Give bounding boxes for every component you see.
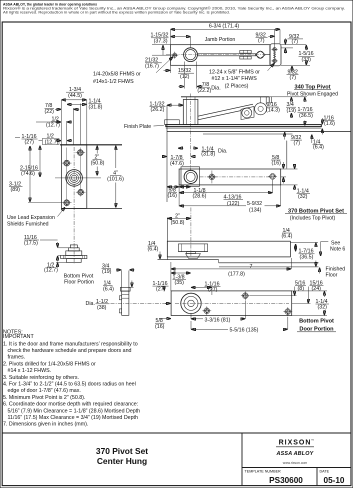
- svg-text:Shields Furnished: Shields Furnished: [7, 221, 49, 227]
- dim 2-15/16 (74.6): [20, 146, 40, 177]
- svg-text:frames.: frames.: [8, 355, 26, 361]
- dim 5-5/16 (135): [191, 317, 288, 334]
- svg-text:(36.5): (36.5): [300, 255, 314, 261]
- floor portion profile: [61, 245, 87, 263]
- svg-text:(12.7): (12.7): [46, 123, 60, 129]
- svg-text:(1.6): (1.6): [324, 121, 335, 127]
- dim 5-9/32 (134): [179, 185, 281, 214]
- plate screw right: [268, 174, 277, 180]
- svg-text:(6.4): (6.4): [148, 247, 159, 253]
- jamb pivot bearing circle: [184, 48, 198, 62]
- svg-text:(27): (27): [208, 287, 218, 293]
- screw C: [283, 307, 292, 316]
- svg-text:Bottom Pivot: Bottom Pivot: [64, 273, 94, 279]
- dim 7/8 (22): [45, 103, 80, 115]
- svg-text:(12): (12): [180, 74, 190, 80]
- dim 1-15/32 (37.3): [151, 33, 191, 48]
- dim 1-3/8 (35): [171, 273, 191, 286]
- spindle tabs: [119, 296, 121, 300]
- svg-text:TM: TM: [311, 440, 314, 442]
- end mounting plate: [270, 44, 281, 66]
- dim 4 inch (101.6): [107, 146, 124, 207]
- spindle bushing: [186, 254, 201, 259]
- svg-text:(7): (7): [292, 39, 299, 45]
- svg-text:3. Suitable reinforcing by oth: 3. Suitable reinforcing by others.: [3, 375, 79, 381]
- mortised case: [178, 244, 207, 254]
- bottom reference line: [61, 207, 122, 209]
- plate: [171, 291, 292, 316]
- spindle bearing: [184, 170, 197, 183]
- svg-text:Dia.: Dia.: [86, 301, 95, 307]
- finish plate left cap: [165, 120, 180, 125]
- dim 9/32 (7) door step: [285, 132, 302, 168]
- dim 3/4 (19): [102, 263, 135, 275]
- svg-text:2. Pivots drilled for 1/4-20x5: 2. Pivots drilled for 1/4-20x5/8 FHMS or: [3, 361, 96, 367]
- plate bearing: [66, 170, 83, 187]
- svg-text:(28.6): (28.6): [193, 193, 207, 199]
- roller 2: [255, 103, 267, 115]
- svg-text:(101.6): (101.6): [107, 177, 124, 183]
- svg-text:Finished: Finished: [326, 266, 346, 272]
- dim 5/8 (16) right upper: [271, 155, 286, 184]
- screw A: [202, 306, 211, 315]
- svg-text:(50.8): (50.8): [91, 161, 105, 167]
- pivot housing: [183, 100, 198, 125]
- bearing circle: [181, 293, 201, 313]
- svg-text:Dia.: Dia.: [218, 149, 227, 155]
- svg-text:(177.8): (177.8): [228, 272, 245, 278]
- dim 15/32 (12): [164, 65, 195, 80]
- svg-text:(26.2): (26.2): [151, 107, 165, 113]
- svg-text:ASSA ABLOY: ASSA ABLOY: [276, 451, 314, 457]
- dim 1-1/16 (27) left: [153, 281, 169, 293]
- dim 1/4 (6.4): [103, 281, 134, 293]
- rod center line: [166, 54, 269, 56]
- dim 3-1/2 (89): [9, 146, 30, 201]
- dim 11/16 (17.5): [24, 235, 68, 262]
- svg-text:(2 Places): (2 Places): [225, 83, 249, 89]
- door heel edge lower: [166, 218, 168, 260]
- arm rod: [197, 53, 256, 55]
- dim 1-3/4 (44.5): [62, 87, 86, 100]
- svg-text:5-5/16 (135): 5-5/16 (135): [230, 328, 259, 334]
- svg-text:All rights reserved. Reproduct: All rights reserved. Reproduction in who…: [3, 10, 230, 14]
- spindle body: [122, 291, 129, 315]
- dim 2 inch (50.8): [91, 146, 105, 175]
- svg-text:(89): (89): [11, 187, 21, 193]
- jamb portion case rect: [171, 45, 270, 66]
- dim 9/32 (7) top-left: [256, 29, 275, 64]
- top of door reference line: [60, 144, 122, 146]
- svg-text:(19): (19): [287, 108, 297, 114]
- svg-text:(12.7): (12.7): [44, 268, 58, 274]
- dim 1-1/32 (26.2): [150, 101, 183, 113]
- svg-text:370 Pivot Set: 370 Pivot Set: [96, 446, 148, 456]
- dim 5/8 (16) left lower + 1-1/8 (28.6): [167, 185, 207, 206]
- floor plate: [179, 169, 281, 185]
- center line: [175, 302, 289, 304]
- svg-text:1. It is the door and frame ma: 1. It is the door and frame manufacturer…: [3, 341, 138, 347]
- svg-text:(22): (22): [45, 109, 55, 115]
- svg-text:(14.3): (14.3): [266, 108, 280, 114]
- adjuster thread between screws: [273, 52, 276, 58]
- svg-text:(32): (32): [298, 194, 308, 200]
- svg-text:#12 x 1-1/4” FHWS: #12 x 1-1/4” FHWS: [212, 76, 258, 82]
- svg-text:TEMPLATE NUMBER: TEMPLATE NUMBER: [245, 470, 282, 474]
- dim 1-7/16 (36.5): [298, 98, 314, 126]
- bearing center line horizontal: [55, 177, 101, 179]
- svg-text:IMPORTANT: IMPORTANT: [3, 334, 34, 340]
- svg-text:(Includes Top Pivot): (Includes Top Pivot): [290, 215, 336, 221]
- spindle top cap: [121, 287, 131, 291]
- svg-text:5-9/32: 5-9/32: [247, 201, 262, 207]
- svg-text:(35): (35): [175, 280, 185, 286]
- pivot axis center line: [73, 147, 75, 264]
- See Note 6: [321, 241, 346, 256]
- svg-text:Dia.: Dia.: [211, 85, 220, 91]
- svg-text:05-10: 05-10: [324, 476, 345, 485]
- screw B: [241, 291, 250, 300]
- svg-text:#14x1-1/2 FHWS: #14x1-1/2 FHWS: [93, 79, 134, 85]
- dim 1/4 (6.4) left: [148, 241, 161, 259]
- finish plate band: [166, 125, 321, 127]
- svg-text:Center Hung: Center Hung: [97, 456, 147, 466]
- dim 1-5/16 (33): [281, 45, 315, 65]
- svg-text:5. Minimum Pivot Point is 2” (: 5. Minimum Pivot Point is 2” (50.8).: [3, 395, 85, 401]
- dim 5/16 (8): [250, 280, 306, 295]
- svg-text:7. Dimensions given in inches: 7. Dimensions given in inches (mm).: [3, 422, 88, 428]
- plate screw D: [28, 200, 72, 206]
- svg-text:1/4-20x5/8 FHMS or: 1/4-20x5/8 FHMS or: [93, 72, 141, 78]
- svg-text:(6.4): (6.4): [282, 233, 293, 239]
- turnbuckle nuts: [240, 50, 251, 59]
- svg-text:4. For 1-3/4” to 2-1/2” (44.5: 4. For 1-3/4” to 2-1/2” (44.5 to 63.5) d…: [3, 382, 136, 388]
- svg-text:6. Coordinate door mortise dep: 6. Coordinate door mortise depth with re…: [3, 402, 138, 408]
- mortise case square: [181, 167, 200, 187]
- svg-text:(17.5): (17.5): [24, 241, 38, 247]
- dim 9/16 (14.3): [266, 102, 280, 114]
- dim 1-1/16 (27): [15, 134, 38, 146]
- hole column center lines: [66, 148, 68, 207]
- dim 1/2 (12.7) floor: [44, 262, 67, 273]
- jamb header line: [181, 96, 269, 98]
- svg-text:(16.7): (16.7): [145, 64, 159, 70]
- svg-text:PS30600: PS30600: [269, 476, 303, 485]
- svg-text:Finish Plate: Finish Plate: [124, 124, 151, 130]
- clevis hook: [265, 97, 267, 105]
- svg-text:Floor: Floor: [326, 273, 338, 279]
- svg-text:3-3/16 (81): 3-3/16 (81): [205, 318, 231, 324]
- dim 1/2 (12.7) upper: [36, 117, 72, 129]
- svg-text:RIXSON: RIXSON: [279, 440, 312, 447]
- dim 1-7/16 (36.5) lower: [290, 242, 318, 266]
- svg-text:(38): (38): [97, 305, 107, 311]
- Finished Floor label: [319, 268, 321, 274]
- svg-text:(22.2): (22.2): [197, 88, 211, 94]
- svg-text:Jamb Portion: Jamb Portion: [205, 37, 236, 43]
- svg-text:11/16” (17.5) Max Clearance =: 11/16” (17.5) Max Clearance = 3/4” (19) …: [8, 415, 139, 421]
- svg-text:(50.8): (50.8): [171, 220, 185, 226]
- svg-text:(19): (19): [102, 269, 112, 275]
- plate screw B: [62, 160, 72, 166]
- floor lines: [158, 259, 219, 261]
- svg-text:Floor Portion: Floor Portion: [64, 280, 94, 286]
- svg-text:DATE: DATE: [320, 470, 330, 474]
- dim 6-3/4 (171.4): [171, 24, 280, 45]
- dim 2 inch (50.8): [167, 213, 191, 226]
- extension lines above plate: [61, 100, 86, 145]
- svg-text:12-24 x 5/8” FHMS or: 12-24 x 5/8” FHMS or: [209, 70, 260, 76]
- screw note (right): [209, 64, 274, 82]
- door body: [167, 241, 290, 257]
- dim 1-1/4 (31.8) Dia. spindle: [179, 146, 228, 157]
- plate screw C: [76, 189, 86, 195]
- 9/32 leader extension: [286, 141, 288, 169]
- svg-text:(6.4): (6.4): [103, 286, 114, 292]
- svg-text:(74.6): (74.6): [21, 171, 35, 177]
- svg-text:(6.4): (6.4): [313, 145, 324, 151]
- roller 1: [242, 108, 252, 118]
- svg-text:(31.8): (31.8): [201, 152, 215, 158]
- svg-text:(47.6): (47.6): [170, 161, 184, 167]
- svg-text:www.rixson.com: www.rixson.com: [283, 461, 308, 465]
- door heel edge: [166, 105, 168, 202]
- svg-text:Bottom Pivot: Bottom Pivot: [299, 319, 334, 325]
- dim 1-1/4 (32) plate height: [281, 164, 310, 200]
- dim 5/8 (16) lower-left: [155, 318, 171, 330]
- svg-text:5/16” (7.9) Min Clearance = 1-: 5/16” (7.9) Min Clearance = 1-1/8” (28.6…: [8, 408, 141, 414]
- svg-text:Use Lead Expansion: Use Lead Expansion: [7, 215, 55, 221]
- roller mount block: [241, 107, 254, 120]
- svg-text:(44.5): (44.5): [68, 93, 82, 99]
- dim 1/4 (6.4) right: [282, 228, 296, 251]
- svg-text:Note 6: Note 6: [330, 246, 345, 252]
- dim 1/16 (1.6): [322, 116, 335, 135]
- dim 21/32 (16.7) vertical: [145, 45, 171, 70]
- dim 1-7/8 (47.6): [163, 155, 195, 167]
- finish plate mortise line: [203, 133, 293, 135]
- svg-text:(37.3): (37.3): [154, 39, 168, 45]
- svg-text:(31.8): (31.8): [89, 104, 103, 110]
- svg-text:check the hardware schedule an: check the hardware schedule and prepare …: [8, 348, 132, 354]
- dim 1/4 (6.4) door top: [312, 135, 324, 151]
- svg-text:edge of door 1-7/8” (47.6) max: edge of door 1-7/8” (47.6) max.: [8, 388, 81, 394]
- svg-text:(36.5): (36.5): [299, 113, 313, 119]
- pivot axis center line: [190, 94, 192, 172]
- svg-text:(16): (16): [272, 161, 282, 167]
- pivot arm (engaged): [198, 104, 253, 116]
- screw note leader (left): [93, 57, 173, 85]
- svg-text:(134): (134): [249, 207, 262, 213]
- dim 3-3/16 (81): [191, 301, 245, 324]
- dim 1-1/4 (32): [292, 291, 329, 316]
- spindle shank: [121, 271, 123, 292]
- svg-text:(27): (27): [25, 140, 35, 146]
- end plate screws: [271, 48, 277, 63]
- svg-text:(16): (16): [168, 193, 178, 199]
- plate screw mid: [208, 171, 217, 184]
- dim 7/8 (22.2) Dia. (2 Places): [178, 62, 248, 94]
- dim 7 (177.8): [171, 258, 292, 291]
- door plate rect: [61, 145, 86, 209]
- dim 1-1/4 (31.8) plate: [67, 99, 102, 111]
- dim 9/32 (7) lower: [287, 66, 299, 81]
- dim 4-13/16 (122): [179, 180, 273, 207]
- pivot axis: [190, 208, 192, 257]
- svg-text:(32): (32): [318, 305, 328, 311]
- svg-text:#14 x 1-12 FHWS.: #14 x 1-12 FHWS.: [8, 368, 52, 374]
- plate screw A: [76, 150, 86, 156]
- jamb screw hole left: [171, 52, 178, 59]
- pivot head diamond + circle: [255, 51, 270, 58]
- svg-text:(16): (16): [155, 324, 165, 330]
- svg-text:6-3/4 (171.4): 6-3/4 (171.4): [209, 24, 240, 30]
- dim 9/32 (7) top-right: [281, 34, 306, 54]
- svg-text:(7): (7): [258, 38, 265, 44]
- door top edge: [167, 131, 351, 133]
- svg-text:(7): (7): [294, 141, 301, 147]
- center line: [200, 176, 271, 178]
- dim 3/4 (19): [286, 98, 296, 118]
- dim 15/16 (24): [292, 280, 324, 303]
- svg-text:(7): (7): [290, 75, 297, 81]
- dim 1/2 (12.7) boxed: [39, 133, 73, 145]
- dim 1-1/16 (27) mid: [191, 281, 221, 295]
